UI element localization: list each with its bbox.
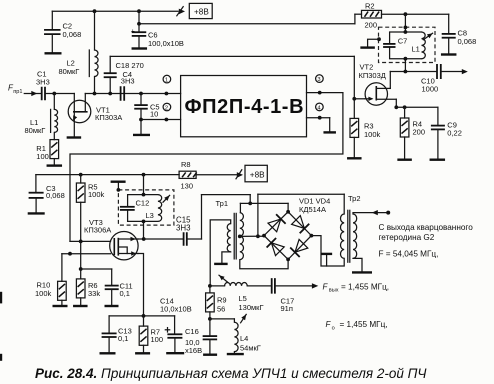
inductor L1 (tank) [422, 32, 426, 59]
svg-text:F = 54,045 МГц,: F = 54,045 МГц, [379, 249, 439, 258]
node Fpr1 input [8, 84, 22, 96]
svg-text:Тр2: Тр2 [348, 194, 361, 203]
svg-text:0,22: 0,22 [447, 128, 462, 137]
label G2 source [379, 223, 474, 258]
ground C16 [203, 354, 217, 356]
svg-text:100: 100 [151, 335, 164, 344]
label R9 [217, 295, 227, 313]
tank frame C7-L1 [390, 32, 422, 59]
ground C3 [28, 212, 45, 214]
svg-text:КД514А: КД514А [299, 205, 326, 214]
scan artifact left edge [0, 292, 2, 361]
label VT1 [95, 105, 122, 122]
wire source rail [109, 314, 175, 318]
wire Tr1 primary top to output node [210, 220, 231, 286]
wire filter pin2 line [141, 118, 181, 122]
svg-text:2: 2 [165, 106, 168, 112]
wire L5 to C17 [247, 285, 271, 287]
label L1 (input) [25, 118, 46, 135]
svg-text:= 1,455 МГц,: = 1,455 МГц, [341, 282, 389, 291]
wire VT3 gate2 [62, 252, 111, 256]
svg-text:+: + [131, 28, 135, 35]
ground R6 [73, 305, 88, 307]
wire top +8V rail (rail1) [52, 9, 178, 13]
svg-text:R8: R8 [181, 160, 191, 169]
svg-text:10,0x10В: 10,0x10В [160, 304, 192, 313]
label VT3 [84, 218, 111, 235]
wire tank2 bottom feed [142, 220, 146, 240]
label C11 [120, 281, 133, 298]
ground shield tank2 [111, 182, 126, 192]
capacitor C1 [42, 87, 45, 101]
label C14 [160, 297, 192, 314]
svg-text:33k: 33k [88, 289, 100, 298]
svg-text:L5: L5 [239, 294, 247, 303]
wire filter pin3 [307, 91, 343, 95]
wire C15 up to rail [201, 195, 203, 239]
label C9 [447, 120, 462, 137]
node VT2 gate [352, 97, 365, 101]
svg-text:0,068: 0,068 [458, 37, 477, 46]
svg-text:3Н3: 3Н3 [121, 77, 135, 86]
tuning arrow L4 [241, 314, 247, 322]
node Tr1 tap [238, 235, 264, 239]
svg-text:F: F [323, 282, 329, 291]
ground R10 [53, 305, 68, 307]
label C12 [136, 198, 150, 207]
resistor R8 [179, 171, 237, 178]
label C15 [176, 216, 191, 233]
wire +8V feed line [36, 173, 179, 177]
ground C13 [100, 352, 116, 354]
resistor R9 [206, 286, 215, 321]
wire VT1 gate segment [45, 92, 74, 96]
label R1 [36, 144, 49, 161]
wire G2 input [353, 210, 390, 215]
inductor L1 (input) [51, 94, 58, 140]
ground VT1 source [67, 136, 82, 138]
wire VT3 source [138, 254, 144, 316]
label C1 [36, 70, 50, 87]
wire tank bottom feed [404, 57, 408, 72]
node output junction [208, 284, 212, 288]
capacitor C18 [104, 73, 117, 93]
wire rail B [258, 193, 344, 195]
ground C2 [45, 52, 62, 54]
ground Tr2 secondary [352, 271, 372, 273]
wire VT2 drain to C10 [390, 70, 437, 74]
ground L4 [227, 353, 244, 355]
label R8 [181, 160, 194, 190]
transformer Tr2 primary [341, 214, 345, 258]
resistor R3 [350, 99, 359, 158]
label VT2 [359, 62, 386, 80]
capacitor C3 [29, 175, 44, 214]
svg-text:100,0x10В: 100,0x10В [148, 39, 184, 48]
wire tank2 top feed [142, 175, 146, 197]
power +8V arrow (top) [177, 7, 185, 16]
label R6 [88, 281, 100, 298]
wire output C10 arrow [441, 69, 468, 74]
label R5 [88, 183, 105, 200]
capacitor C8 [442, 14, 456, 54]
label C2 [63, 22, 82, 40]
capacitor C9 [431, 107, 445, 159]
svg-text:о: о [332, 325, 335, 331]
resistor R5 [76, 175, 85, 242]
wire filter pin4 [307, 116, 330, 133]
capacitor C10 [437, 64, 441, 79]
svg-text:C18 270: C18 270 [116, 61, 144, 70]
label Tr1 [216, 199, 229, 208]
diode VD2 [292, 216, 310, 234]
svg-text:L3: L3 [146, 211, 154, 220]
tuning arrow L5 [219, 275, 227, 282]
pin 1 marker [163, 75, 171, 83]
capacitor C11 [105, 269, 119, 306]
inductor L4 [234, 319, 238, 354]
inductor L5 [225, 282, 248, 285]
wire VT1 drain line [85, 92, 180, 96]
svg-text:Рис. 28.4. Принципиальная схем: Рис. 28.4. Принципиальная схема УПЧ1 и с… [35, 366, 427, 381]
wire output to L5 [210, 285, 225, 287]
pin 2 marker [163, 103, 171, 111]
svg-text:КП303А: КП303А [95, 113, 122, 122]
capacitor C16 [203, 319, 218, 355]
svg-text:1: 1 [165, 78, 168, 84]
wire VT3 drain node [138, 237, 146, 241]
label R7 [151, 327, 164, 344]
resistor R2 [355, 10, 449, 18]
tuning arrow L1 [423, 33, 432, 40]
svg-text:L4: L4 [240, 334, 248, 343]
label C16 [185, 327, 202, 355]
label C3 [46, 184, 65, 200]
svg-text:ФП2П-4-1-В: ФП2П-4-1-В [185, 96, 305, 118]
svg-text:200: 200 [365, 21, 378, 30]
svg-text:100: 100 [36, 152, 49, 161]
svg-text:C8: C8 [458, 28, 468, 37]
ground C14 [166, 352, 184, 354]
resistor R1 [50, 140, 59, 166]
capacitor C13 [102, 316, 117, 353]
svg-text:200: 200 [413, 128, 426, 137]
transformer Tr1 core [234, 213, 236, 259]
shield box tank C12-L3 [118, 190, 173, 225]
capacitor C14 (electrolytic) [165, 316, 182, 353]
power +8V box (top) [189, 3, 212, 18]
diode VD1 [268, 214, 286, 232]
wire rail A [202, 194, 251, 196]
diode VD3 [290, 239, 308, 257]
resistor R7 [139, 316, 148, 353]
wire Tr1 primary bottom [222, 252, 231, 264]
label Tr2 [348, 194, 361, 203]
svg-text:10: 10 [150, 110, 158, 119]
wire Fout arrow [275, 283, 318, 288]
label L4 [240, 334, 261, 352]
wire VT2 source node [394, 99, 438, 109]
wire VT3 gate1 [70, 240, 111, 244]
resistor R4 [400, 107, 409, 159]
tank frame C12-L3 [128, 195, 158, 222]
svg-text:C12: C12 [136, 198, 150, 207]
svg-text:3Н3: 3Н3 [176, 224, 191, 233]
wire Tr2 secondary bottom [353, 258, 362, 272]
transformer Tr2 secondary [353, 214, 357, 258]
transistor VT2 [365, 72, 396, 106]
label C5 [150, 103, 160, 119]
svg-text:F: F [326, 320, 332, 329]
inductor L3 [158, 195, 162, 222]
wire railB to mixer left [256, 194, 260, 238]
ground C8 [441, 53, 457, 55]
wire C18 gate rail [110, 56, 354, 98]
svg-text:80мкГ: 80мкГ [59, 67, 80, 76]
ground Tr2 primary side [321, 254, 333, 266]
svg-text:100k: 100k [364, 130, 381, 139]
capacitor C15 [144, 232, 202, 246]
svg-text:130мкГ: 130мкГ [239, 303, 264, 312]
label R3 [364, 121, 381, 139]
caption [35, 366, 427, 381]
power +8V arrow (mid) [236, 170, 243, 179]
svg-text:0,068: 0,068 [63, 30, 82, 39]
svg-text:вых: вых [329, 288, 339, 294]
label L3 [146, 211, 154, 220]
svg-text:VT2: VT2 [360, 62, 374, 71]
label C4 [121, 70, 135, 86]
ground Tr1 primary [214, 263, 228, 265]
label F0 [326, 320, 388, 331]
ground R4 [397, 158, 412, 160]
wire line to mixer top [240, 203, 288, 212]
svg-text:пр1: пр1 [13, 89, 22, 95]
svg-text:+8B: +8B [250, 170, 265, 179]
svg-text:L1: L1 [412, 45, 420, 54]
svg-text:C7: C7 [398, 37, 408, 46]
svg-text:100k: 100k [88, 190, 105, 199]
svg-text:+8B: +8B [194, 7, 209, 16]
transformer Tr1 secondary [240, 213, 244, 260]
ground C6 [132, 47, 148, 49]
inductor L2 [89, 11, 98, 93]
wire rail2 to R2 [137, 14, 355, 25]
svg-text:0,1: 0,1 [120, 289, 130, 298]
capacitor C5 [134, 94, 148, 135]
capacitor C17 [272, 278, 275, 294]
label R10 [35, 281, 52, 298]
capacitor C4 [121, 86, 125, 101]
resistor R10 [58, 254, 67, 306]
svg-text:C16: C16 [185, 327, 199, 336]
ground C9 [430, 158, 446, 160]
filter U1 FP2P-4-1-V [181, 76, 307, 137]
ground R1 [47, 164, 63, 166]
power +8V box (mid) [245, 165, 267, 182]
wire pin3 route to VT3 [70, 93, 343, 242]
capacitor C12 [120, 207, 135, 210]
label C17 [281, 296, 295, 313]
shield box tank C7-L1 [379, 27, 436, 62]
svg-text:130: 130 [181, 181, 194, 190]
svg-text:= 1,455 МГц,: = 1,455 МГц, [340, 320, 388, 329]
svg-text:R3: R3 [364, 121, 374, 130]
diode VD4 [267, 238, 285, 256]
label Fout [323, 282, 390, 293]
ground shield tank1 [360, 37, 381, 47]
svg-text:3Н3: 3Н3 [36, 77, 50, 86]
svg-text:3: 3 [317, 77, 320, 83]
label R2 [365, 1, 378, 29]
ground R3 [347, 157, 362, 159]
svg-text:56: 56 [217, 304, 225, 313]
capacitor C6 (electrolytic) [131, 11, 147, 48]
wire railA down [248, 195, 252, 206]
transistor VT1 [68, 94, 91, 138]
wire to L4 [210, 318, 235, 320]
transformer Tr2 core [348, 210, 350, 262]
label C7 [398, 37, 408, 46]
svg-text:х16В: х16В [185, 346, 202, 355]
label R4 [413, 119, 426, 136]
svg-text:54мкГ: 54мкГ [240, 343, 261, 352]
svg-text:КП303Д: КП303Д [359, 71, 386, 80]
capacitor C2 [44, 11, 61, 53]
label C6 [148, 31, 184, 49]
pin 4 marker [316, 103, 324, 111]
svg-text:Тр1: Тр1 [216, 199, 229, 208]
pin 3 marker [316, 75, 324, 83]
wire Tr1 secondary bottom to mixer [240, 259, 288, 268]
label C10 [421, 76, 438, 93]
wire R6-C11 node [79, 241, 112, 271]
mixer ring VD1-VD4 [262, 210, 313, 261]
label C18 [116, 61, 144, 70]
capacitor C7 [383, 44, 395, 47]
svg-text:0,068: 0,068 [46, 191, 65, 200]
transistor VT3 [110, 232, 138, 260]
label L5 [239, 294, 264, 312]
resistor R6 [76, 269, 85, 306]
label L2 [59, 59, 80, 77]
ground pin4 [323, 131, 336, 133]
svg-text:100k: 100k [35, 289, 52, 298]
ground C5 [133, 134, 150, 136]
svg-text:КП306А: КП306А [84, 226, 111, 235]
wire Tr2 primary top [343, 194, 345, 214]
label C13 [118, 326, 132, 343]
svg-text:R2: R2 [365, 1, 375, 10]
svg-text:80мкГ: 80мкГ [25, 126, 46, 135]
svg-text:С выхода кварцованного: С выхода кварцованного [379, 223, 474, 232]
label L1 (tank) [412, 45, 420, 54]
svg-text:1000: 1000 [422, 84, 439, 93]
wire tank top feed [404, 14, 408, 34]
svg-text:R9: R9 [217, 295, 227, 304]
ground C11 [105, 305, 119, 307]
svg-text:гетеродина G2: гетеродина G2 [379, 233, 435, 242]
ground R7 [135, 352, 150, 354]
wire Tr2 primary bottom loop [311, 236, 344, 266]
wire input arrow [24, 91, 41, 96]
svg-text:91п: 91п [281, 304, 293, 313]
tuning arrow L3 [163, 195, 170, 202]
transformer Tr1 primary [227, 224, 231, 252]
label VD1 VD4 [299, 196, 330, 214]
label C8 [458, 28, 477, 46]
svg-text:0,1: 0,1 [118, 334, 128, 343]
